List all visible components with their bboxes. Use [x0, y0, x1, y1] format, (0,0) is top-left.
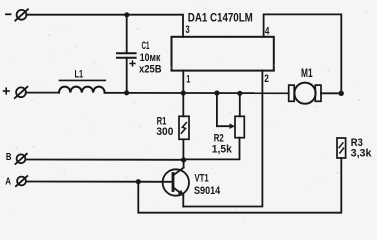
- M1 left brush: [289, 85, 295, 101]
- wire M1 right lead: [321, 92, 341, 94]
- node pin1 junction: [181, 90, 186, 95]
- terminal minus: [15, 9, 28, 20]
- node B junction: [181, 157, 186, 162]
- node A junction: [136, 179, 141, 184]
- node top C1 junction: [124, 12, 129, 17]
- svg-text:M1: M1: [301, 68, 313, 80]
- VT1 emitter arrowhead: [178, 190, 184, 196]
- node R2 wiper junction: [214, 90, 219, 95]
- svg-text:C1: C1: [142, 40, 150, 52]
- svg-text:B: B: [6, 151, 12, 163]
- node R2 top junction: [237, 91, 242, 96]
- svg-text:1,5k: 1,5k: [212, 143, 233, 155]
- label plus: [4, 88, 10, 94]
- svg-text:L1: L1: [75, 69, 84, 81]
- node motor right junction: [339, 91, 344, 96]
- wire B line: [26, 159, 184, 161]
- wire pin1 down: [182, 71, 184, 117]
- IC DA1 C1470LM body: [172, 37, 274, 71]
- svg-text:3: 3: [185, 24, 189, 36]
- inductor L1: [59, 87, 105, 93]
- VT1 collector stroke: [173, 168, 183, 176]
- M1 right brush: [315, 85, 321, 101]
- terminal plus: [15, 87, 28, 98]
- VT1 envelope circle: [163, 169, 189, 195]
- wire VT1 emitter lead: [182, 195, 184, 206]
- wire R2 top lead: [239, 93, 241, 116]
- resistor R1: [179, 116, 189, 139]
- VT1 emitter stroke: [173, 187, 183, 195]
- wire R1 bottom to B node: [182, 139, 184, 160]
- L1 overline: [60, 79, 106, 81]
- svg-text:300: 300: [156, 126, 173, 138]
- svg-text:2: 2: [264, 73, 269, 85]
- VT1 base bar: [172, 174, 175, 191]
- svg-text:3,3k: 3,3k: [351, 148, 373, 160]
- wire plus rail to motor: [105, 92, 289, 94]
- wire pin4 to top right corner: [264, 14, 342, 93]
- svg-text:4: 4: [265, 25, 270, 37]
- svg-text:VT1: VT1: [195, 172, 209, 184]
- node C1 bottom junction: [124, 90, 129, 95]
- terminal A: [16, 176, 27, 186]
- terminal B: [15, 154, 26, 164]
- C1 plus mark: [130, 61, 135, 66]
- svg-text:DA1 C1470LM: DA1 C1470LM: [188, 10, 253, 24]
- label minus: [6, 13, 11, 15]
- M1 rotor circle: [294, 83, 315, 104]
- svg-text:A: A: [5, 175, 11, 187]
- R2 wiper arrowhead: [230, 123, 236, 129]
- motor M1: [289, 83, 342, 104]
- transistor VT1: [163, 160, 189, 207]
- wire top rail: [26, 15, 183, 37]
- wire R2 wiper: [217, 93, 232, 126]
- wire pin2 down to emitter line: [183, 71, 262, 207]
- svg-text:1: 1: [186, 73, 190, 85]
- svg-text:S9014: S9014: [194, 185, 221, 197]
- resistor R3: [337, 138, 346, 158]
- wire VT1 collector lead: [183, 160, 185, 168]
- wire R2 bottom to B line: [184, 138, 240, 160]
- resistor R2: [235, 116, 244, 137]
- wire A line to base: [26, 181, 173, 183]
- wire plus rail left: [26, 92, 59, 94]
- capacitor C1: [117, 15, 136, 93]
- svg-text:10мк: 10мк: [140, 52, 161, 64]
- wire bottom rail: [138, 158, 341, 213]
- svg-text:х25В: х25В: [139, 64, 162, 76]
